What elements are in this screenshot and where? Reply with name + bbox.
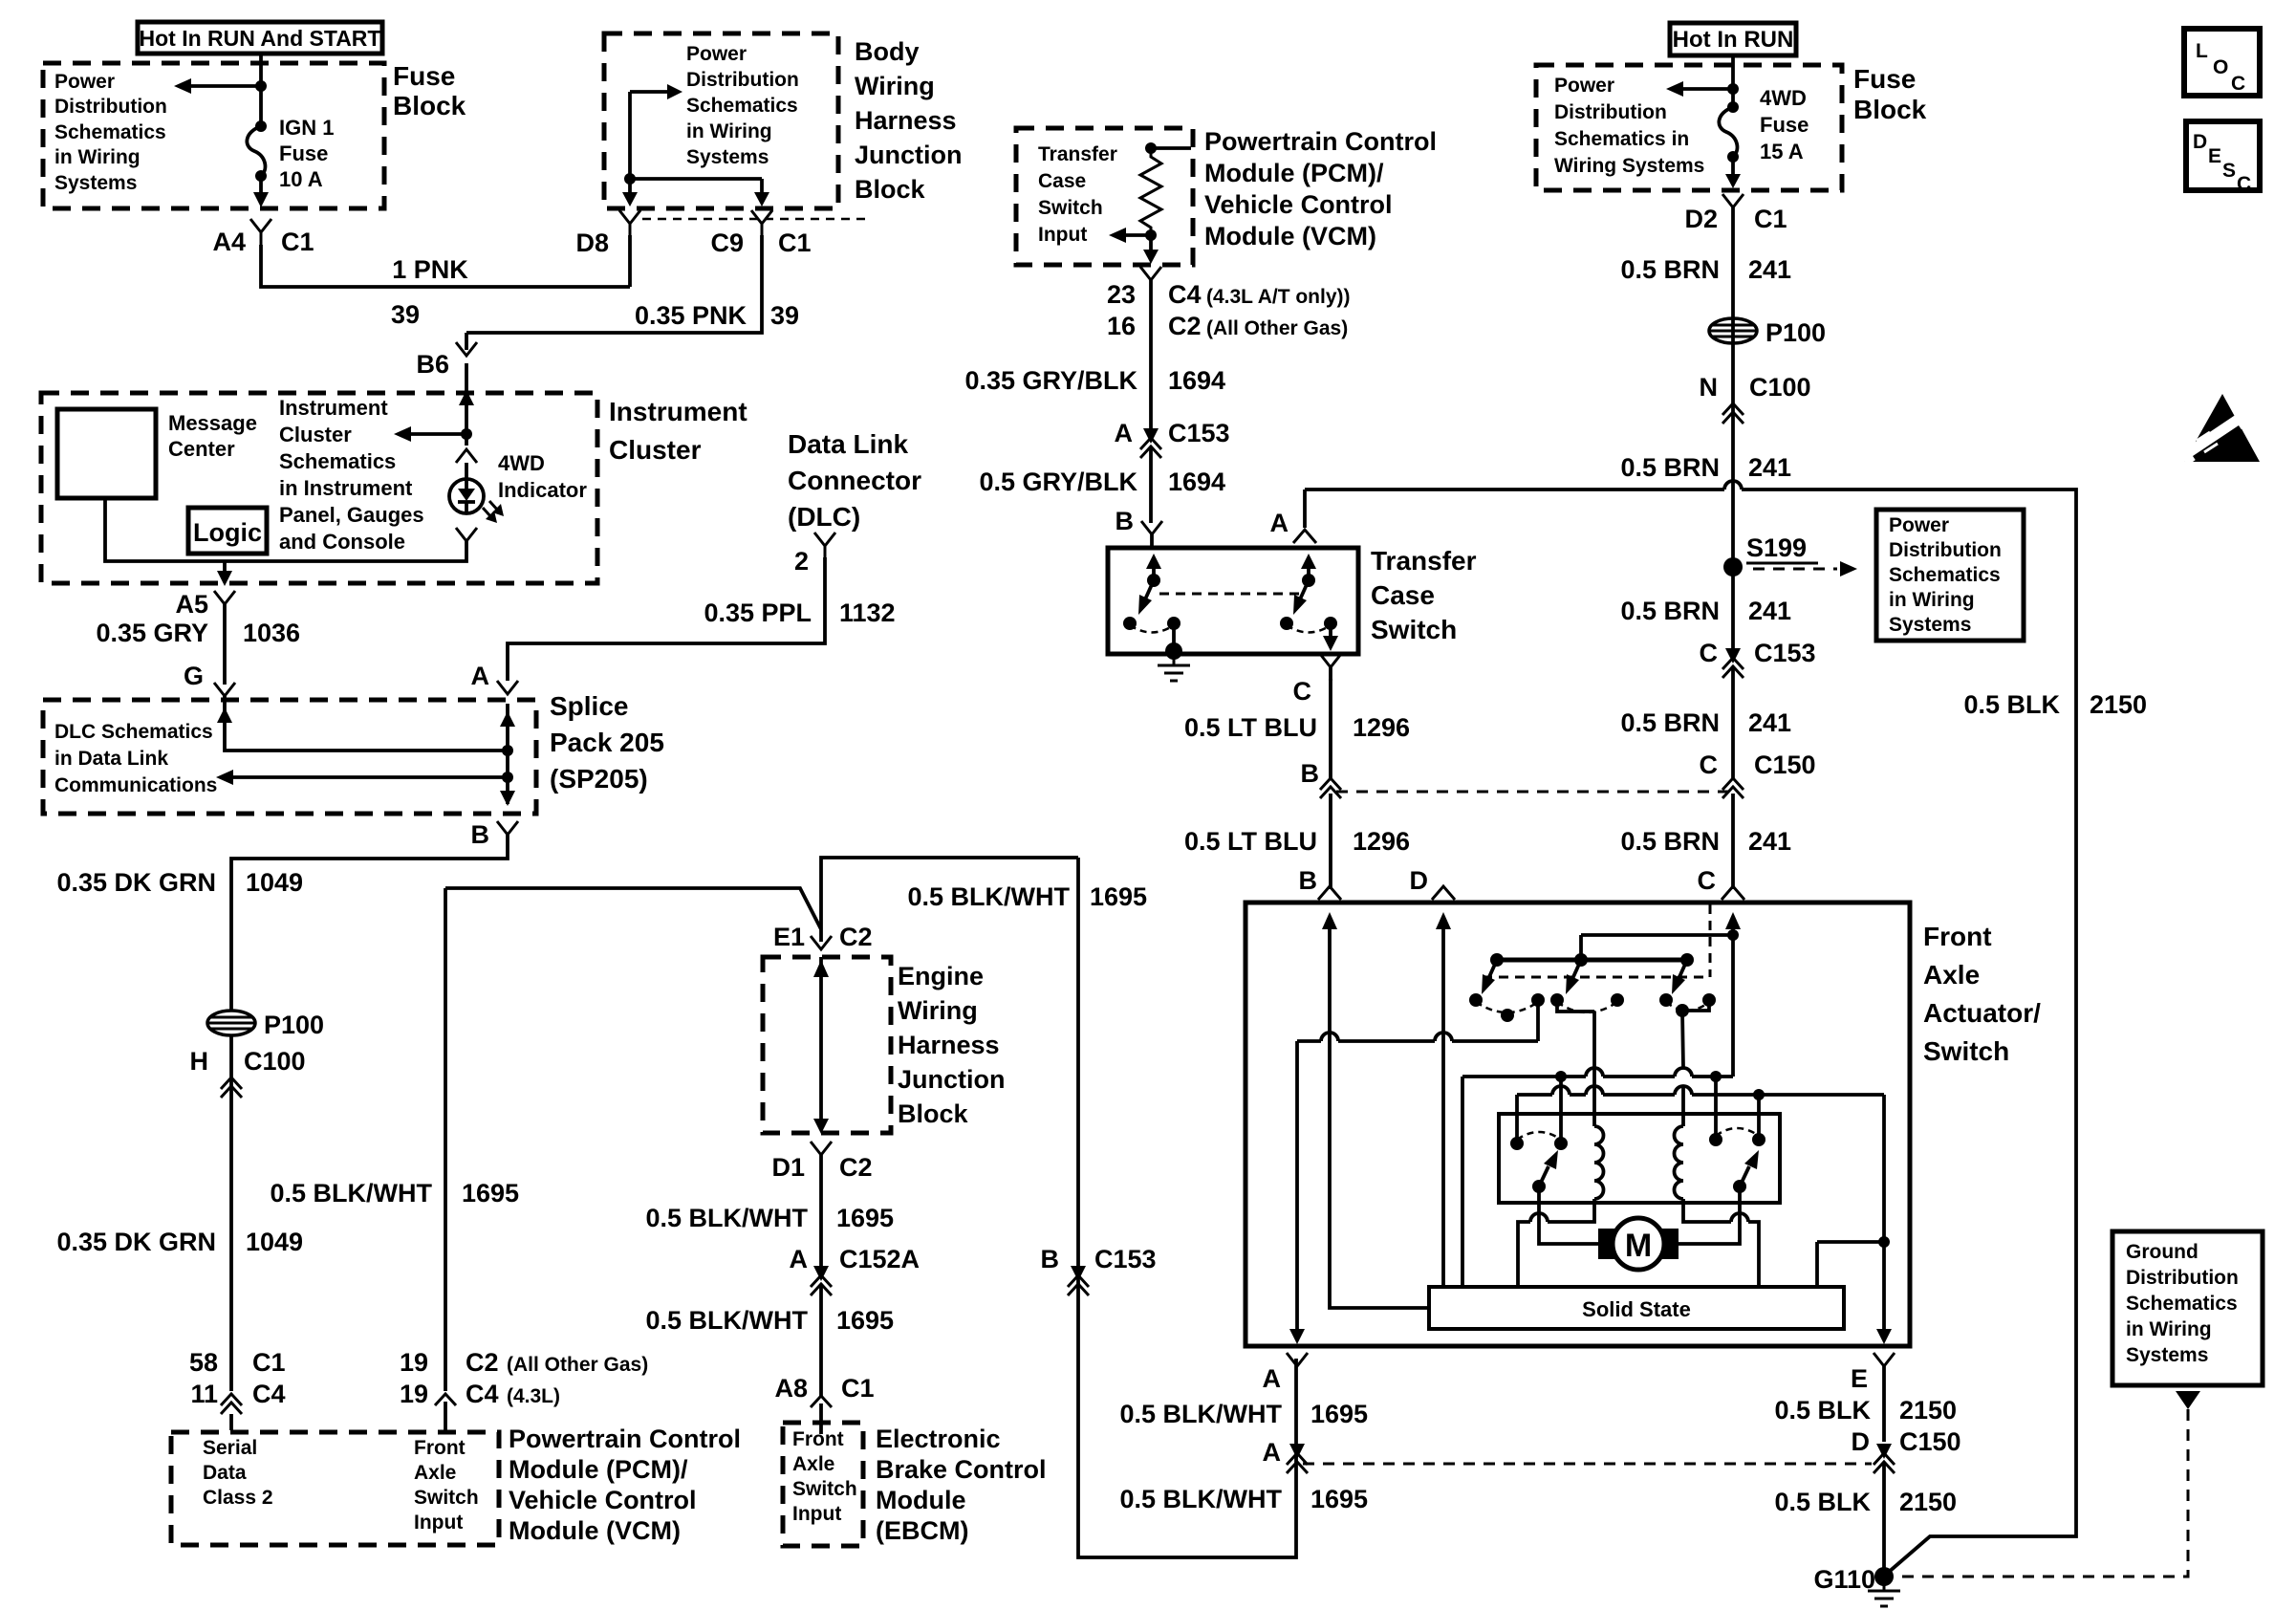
svg-text:0.35 GRY/BLK: 0.35 GRY/BLK — [964, 366, 1137, 395]
wire 0.35 PNK 39 — [466, 235, 799, 333]
wire 0.5 BLK/WHT 1695 (to C152A) — [645, 1166, 894, 1268]
svg-text:1695: 1695 — [836, 1204, 894, 1232]
svg-text:Axle: Axle — [414, 1462, 456, 1484]
connector 58 C1 / 11 C4 into PCM — [189, 1348, 286, 1430]
wire 0.5 BLK/WHT 1695 (actuator A lower) — [1119, 1485, 1368, 1513]
svg-text:D2: D2 — [1684, 205, 1718, 233]
PCM/VCM dashed box (bottom left) — [171, 1432, 499, 1545]
svg-text:Block: Block — [393, 91, 466, 120]
svg-text:0.5 BLK/WHT: 0.5 BLK/WHT — [645, 1204, 808, 1232]
svg-text:C150: C150 — [1754, 751, 1816, 779]
svg-text:C: C — [2231, 73, 2245, 95]
in-line connector A C153 — [1115, 419, 1230, 458]
svg-text:1695: 1695 — [1090, 882, 1147, 911]
front axle actuator/switch box — [1245, 903, 1910, 1346]
right pivot drop to motor — [1679, 1186, 1740, 1244]
Transfer Case Switch Input note — [1038, 143, 1117, 246]
wire 0.5 LT BLU 1296 (upper) — [1184, 679, 1410, 780]
svg-text:Transfer: Transfer — [1371, 546, 1477, 576]
wire D8 down to 1 PNK — [628, 235, 632, 287]
svg-text:Wiring: Wiring — [855, 72, 935, 100]
svg-text:Module (PCM)/: Module (PCM)/ — [509, 1455, 688, 1484]
in-line connector N C100 — [1700, 373, 1811, 424]
svg-text:Module: Module — [876, 1486, 966, 1514]
svg-text:C2: C2 — [839, 923, 873, 951]
svg-text:O: O — [2213, 56, 2228, 78]
transfer case switch pole B — [1123, 554, 1182, 660]
svg-text:10 A: 10 A — [279, 167, 323, 191]
svg-text:Class 2: Class 2 — [203, 1487, 273, 1509]
svg-text:(DLC): (DLC) — [788, 502, 860, 532]
Data Link Connector label — [788, 429, 921, 532]
svg-text:Instrument: Instrument — [609, 397, 747, 426]
connector D1 C2 — [771, 1142, 872, 1182]
svg-text:1049: 1049 — [246, 868, 303, 897]
upper switch arm 2 — [1566, 960, 1581, 994]
connector G — [184, 662, 235, 696]
svg-text:Axle: Axle — [1923, 960, 1980, 990]
wire 0.5 BLK 2150 (E lower) — [1774, 1462, 1957, 1577]
svg-text:Serial: Serial — [203, 1437, 257, 1459]
svg-text:S: S — [2222, 160, 2236, 182]
svg-text:Harness: Harness — [855, 106, 957, 135]
wire 0.35 PPL 1132 — [704, 598, 895, 627]
svg-text:Transfer: Transfer — [1038, 143, 1117, 165]
Fuse Block label (left) — [393, 61, 466, 120]
Instrument Cluster title — [609, 397, 747, 465]
svg-text:Input: Input — [1038, 224, 1087, 246]
power distribution schematics box (solid) — [1876, 510, 2024, 641]
wire 0.5 BRN 241 (S199 to C153) — [1620, 567, 1791, 650]
svg-text:Junction: Junction — [855, 141, 963, 169]
Splice Pack label — [550, 691, 664, 794]
riser line A to solid state — [1461, 1077, 1464, 1287]
Body Wiring Harness Junction Block label — [855, 37, 963, 204]
svg-text:0.5 BLK/WHT: 0.5 BLK/WHT — [907, 882, 1070, 911]
svg-text:Panel, Gauges: Panel, Gauges — [279, 503, 424, 527]
svg-text:0.5 BRN: 0.5 BRN — [1620, 597, 1720, 625]
svg-text:in Wiring: in Wiring — [54, 146, 141, 168]
svg-text:1 PNK: 1 PNK — [392, 255, 468, 284]
connector E (actuator bottom) — [1851, 1353, 1895, 1393]
svg-text:241: 241 — [1748, 597, 1791, 625]
svg-text:L: L — [2196, 40, 2208, 62]
pull-up resistor in PCM — [1140, 142, 1191, 232]
svg-text:B6: B6 — [416, 350, 449, 379]
svg-text:Schematics: Schematics — [54, 121, 166, 143]
body wiring harness junction block dashed box — [604, 33, 838, 208]
wire 0.5 BLK 2150 (E upper) — [1774, 1366, 1957, 1442]
svg-text:0.5 BLK: 0.5 BLK — [1774, 1396, 1871, 1425]
svg-text:Block: Block — [898, 1099, 969, 1128]
svg-text:Module (VCM): Module (VCM) — [509, 1516, 681, 1545]
svg-text:B: B — [1041, 1245, 1060, 1273]
wire from PCM-19 wire top to E1 junction — [445, 888, 821, 929]
pointer triangle (ground distribution) — [2176, 1391, 2200, 1409]
svg-text:C100: C100 — [1749, 373, 1811, 402]
upper switch pivot bar — [1490, 953, 1694, 967]
svg-text:C4: C4 — [252, 1380, 286, 1408]
svg-text:Distribution: Distribution — [686, 69, 799, 91]
svg-text:Fuse: Fuse — [279, 141, 328, 165]
svg-text:Actuator/: Actuator/ — [1923, 998, 2041, 1028]
upper switch contacts row — [1469, 993, 1716, 1022]
line A (C feed) — [1462, 1068, 1733, 1082]
svg-text:DLC Schematics: DLC Schematics — [54, 721, 213, 743]
svg-text:(All Other Gas): (All Other Gas) — [507, 1354, 648, 1376]
svg-text:0.5 BLK: 0.5 BLK — [1963, 690, 2060, 719]
dashed arrow S199 to power distribution — [1753, 561, 1857, 577]
svg-text:Distribution: Distribution — [1889, 539, 2002, 561]
svg-text:Module (PCM)/: Module (PCM)/ — [1204, 159, 1384, 187]
svg-text:0.5 BLK/WHT: 0.5 BLK/WHT — [270, 1179, 432, 1207]
4WD Fuse 15 A label — [1760, 86, 1809, 163]
wire 0.5 BLK/WHT 1695 (EBCM riser to actuator) — [907, 858, 1296, 1557]
svg-text:Systems: Systems — [2126, 1344, 2208, 1366]
connector 23 C4 / 16 C2 — [1107, 267, 1351, 340]
DLC pin 2 connector — [794, 533, 835, 576]
connector B (transfer case switch) — [1116, 507, 1163, 548]
connector A (actuator bottom) — [1263, 1353, 1309, 1393]
svg-text:B: B — [471, 820, 490, 849]
connector B (splice bottom) — [471, 820, 519, 849]
svg-text:Case: Case — [1371, 580, 1435, 610]
svg-text:0.35 GRY: 0.35 GRY — [96, 619, 208, 647]
arrow to Power Distribution Schematics (right) — [1666, 81, 1733, 97]
motor M — [1598, 1218, 1679, 1270]
svg-text:C4: C4 — [1168, 280, 1202, 309]
svg-text:A4: A4 — [212, 228, 246, 256]
connector E1 C2 — [773, 923, 873, 951]
svg-text:Block: Block — [1853, 95, 1927, 124]
svg-text:0.5 BLK/WHT: 0.5 BLK/WHT — [1119, 1400, 1282, 1428]
wire 0.35 GRY/BLK 1694 — [964, 292, 1225, 430]
dashed connector line C150 (upper) — [1336, 791, 1733, 794]
svg-text:39: 39 — [770, 301, 799, 330]
svg-text:Front: Front — [1923, 922, 1992, 951]
svg-text:0.5 LT BLU: 0.5 LT BLU — [1184, 713, 1317, 742]
svg-text:16: 16 — [1107, 312, 1136, 340]
wire pivot bar feed — [1581, 935, 1733, 960]
svg-text:Schematics: Schematics — [686, 95, 798, 117]
linkage dashed (transfer case switch) — [1159, 593, 1303, 596]
svg-text:Indicator: Indicator — [498, 478, 587, 502]
pass through grommet P100 (right) — [1709, 318, 1826, 347]
connector C (actuator) — [1698, 866, 1745, 900]
svg-text:2150: 2150 — [1899, 1396, 1957, 1425]
svg-text:C: C — [1700, 639, 1719, 667]
svg-text:Vehicle Control: Vehicle Control — [509, 1486, 697, 1514]
connector D8 / C9 / C1 — [575, 210, 865, 257]
svg-text:Logic: Logic — [193, 518, 262, 547]
svg-text:B: B — [1116, 507, 1135, 535]
Front Axle Actuator/Switch label — [1923, 922, 2041, 1066]
svg-text:Pack 205: Pack 205 — [550, 728, 664, 757]
LOC legend box — [2184, 29, 2260, 96]
svg-text:(4.3L): (4.3L) — [507, 1385, 560, 1407]
svg-text:241: 241 — [1748, 708, 1791, 737]
svg-text:0.5 BRN: 0.5 BRN — [1620, 708, 1720, 737]
connector 19 C2 / 19 C4 into PCM — [400, 1348, 648, 1430]
dashed wire ground distribution to G110 — [1895, 1409, 2188, 1577]
splice wire G branch with up arrow — [217, 696, 513, 756]
svg-text:0.35 PPL: 0.35 PPL — [704, 598, 812, 627]
svg-text:M: M — [1625, 1228, 1652, 1264]
connector A5 — [175, 590, 235, 619]
4WD Indicator label — [498, 451, 587, 502]
svg-text:A: A — [1270, 509, 1289, 537]
svg-text:Wiring: Wiring — [898, 996, 978, 1025]
svg-text:C1: C1 — [841, 1374, 875, 1403]
svg-text:C100: C100 — [244, 1047, 306, 1076]
svg-text:Ground: Ground — [2126, 1241, 2199, 1263]
Serial Data Class 2 note — [203, 1437, 273, 1509]
PCM/VCM title (bottom) — [509, 1425, 741, 1545]
DLC schematics dashed box — [43, 700, 536, 814]
connector B (actuator) — [1299, 866, 1342, 900]
coil 2 — [1675, 1126, 1684, 1199]
svg-text:Powertrain Control: Powertrain Control — [509, 1425, 741, 1453]
DLC Schematics note — [54, 721, 217, 796]
svg-text:2150: 2150 — [1899, 1488, 1957, 1516]
svg-text:1695: 1695 — [462, 1179, 519, 1207]
svg-text:Data: Data — [203, 1462, 247, 1484]
svg-text:(EBCM): (EBCM) — [876, 1516, 968, 1545]
svg-text:G110: G110 — [1813, 1565, 1875, 1594]
Hot In RUN box — [1670, 23, 1796, 55]
svg-text:19: 19 — [400, 1380, 428, 1408]
connector D (actuator) — [1410, 866, 1456, 900]
DESC legend box — [2186, 121, 2260, 195]
Fuse Block label (right) — [1853, 64, 1927, 124]
svg-text:0.5 BLK/WHT: 0.5 BLK/WHT — [645, 1306, 808, 1335]
upper switch arm 1 — [1482, 960, 1497, 994]
arrow left to DLC schematics — [216, 770, 513, 785]
svg-text:C4: C4 — [466, 1380, 499, 1408]
message center box — [57, 409, 257, 498]
svg-text:Axle: Axle — [792, 1453, 834, 1475]
svg-text:and Console: and Console — [279, 530, 405, 554]
svg-text:in Wiring: in Wiring — [1889, 589, 1975, 611]
svg-text:C1: C1 — [778, 228, 812, 257]
svg-text:0.5 LT BLU: 0.5 LT BLU — [1184, 827, 1317, 856]
drop to left limit switch contact — [1559, 1077, 1563, 1143]
svg-text:Module (VCM): Module (VCM) — [1204, 222, 1376, 250]
svg-text:Schematics: Schematics — [2126, 1293, 2238, 1315]
in-line connector D C150 (right) — [1852, 1427, 1961, 1473]
wire from Hot In RUN into fuse — [1727, 55, 1739, 107]
svg-text:39: 39 — [391, 300, 420, 329]
svg-text:1296: 1296 — [1353, 713, 1410, 742]
wire from A-pin corner to 2150 run — [1303, 490, 1307, 528]
splice pack vertical with arrows — [500, 704, 515, 806]
coil 2 drop to solid state — [1683, 1199, 1759, 1287]
svg-text:1049: 1049 — [246, 1228, 303, 1256]
wire from A up to DLC pin 2 — [508, 557, 825, 681]
svg-text:D1: D1 — [771, 1153, 805, 1182]
svg-text:Solid State: Solid State — [1582, 1297, 1691, 1321]
svg-text:C153: C153 — [1754, 639, 1816, 667]
wire to transfer case A and 0.5 BLK 2150 run — [1305, 481, 2147, 1573]
svg-text:23: 23 — [1107, 280, 1136, 309]
svg-text:Case: Case — [1038, 170, 1086, 192]
pin E vertical — [1876, 1095, 1892, 1344]
svg-text:Message: Message — [168, 411, 257, 435]
pin D riser (inside) — [1436, 912, 1451, 1287]
IGN 1 Fuse 10 A label — [279, 116, 334, 191]
connector A4 C1 — [212, 219, 314, 256]
svg-text:1296: 1296 — [1353, 827, 1410, 856]
in-line connector A C150 (left) — [1263, 1438, 1309, 1473]
left pivot drop to motor — [1539, 1186, 1600, 1244]
svg-text:C2: C2 — [1168, 312, 1202, 340]
wire 0.35 DK GRN 1049 (upper) — [56, 835, 508, 1391]
in-line connector B C153 (EBCM riser) — [1041, 1245, 1157, 1295]
svg-text:E1: E1 — [773, 923, 805, 951]
left limit switch — [1510, 1132, 1568, 1193]
svg-text:C: C — [1700, 751, 1719, 779]
fuse block dashed box (left) — [43, 63, 384, 208]
connector A (splice top) — [471, 662, 519, 694]
wire out of PCM box down — [1143, 232, 1159, 264]
svg-text:E: E — [2208, 145, 2221, 167]
svg-text:C153: C153 — [1168, 419, 1230, 447]
svg-text:Systems: Systems — [1889, 614, 1971, 636]
transfer case switch box — [1108, 548, 1358, 654]
svg-text:0.35 DK GRN: 0.35 DK GRN — [56, 1228, 216, 1256]
ground G110 — [1813, 1565, 1900, 1606]
svg-text:Power: Power — [54, 71, 115, 93]
svg-text:Switch: Switch — [792, 1478, 857, 1500]
line B drop to right limit switch contact — [1757, 1095, 1761, 1140]
wire 0.35 DK GRN 1049 (lower) — [56, 1228, 303, 1256]
wire contact elbow to coil 1 riser — [1557, 1000, 1594, 1012]
wire 0.5 GRY/BLK 1694 — [979, 446, 1225, 523]
svg-text:Brake Control: Brake Control — [876, 1455, 1047, 1484]
svg-text:0.35 PNK: 0.35 PNK — [635, 301, 747, 330]
in-line connector H C100 — [190, 1047, 306, 1098]
svg-text:A: A — [790, 1245, 809, 1273]
svg-text:Communications: Communications — [54, 774, 217, 796]
svg-text:P100: P100 — [1765, 318, 1826, 347]
svg-text:C: C — [2237, 173, 2251, 195]
ESD static sensitive symbol — [2178, 394, 2260, 466]
svg-text:Input: Input — [792, 1503, 841, 1525]
svg-text:0.5 BLK: 0.5 BLK — [1774, 1488, 1871, 1516]
wire contact elbow to coil 2 riser — [1682, 1000, 1709, 1011]
svg-text:Fuse: Fuse — [1760, 113, 1809, 137]
svg-text:P100: P100 — [264, 1011, 324, 1039]
svg-text:Junction: Junction — [898, 1065, 1006, 1094]
svg-text:11: 11 — [190, 1380, 218, 1408]
coil 1 — [1594, 1126, 1604, 1199]
svg-text:Fuse: Fuse — [1853, 64, 1916, 94]
limit switch inner box — [1499, 1114, 1780, 1203]
svg-text:D8: D8 — [575, 228, 609, 257]
svg-text:Distribution: Distribution — [1554, 101, 1667, 123]
svg-text:B: B — [1301, 759, 1320, 788]
svg-text:4WD: 4WD — [498, 451, 545, 475]
wire 1 PNK 39 — [261, 245, 630, 329]
svg-text:C2: C2 — [466, 1348, 499, 1377]
wire 0.5 BRN 241 (to S199) with hop over 2150 run — [1620, 219, 1791, 558]
svg-text:D: D — [1852, 1427, 1871, 1456]
svg-text:A: A — [1263, 1364, 1282, 1393]
ground distribution schematics box — [2112, 1231, 2263, 1385]
svg-text:Cluster: Cluster — [279, 423, 352, 446]
svg-text:(All Other Gas): (All Other Gas) — [1206, 317, 1348, 339]
svg-text:A8: A8 — [774, 1374, 808, 1403]
wire 0.5 BLK/WHT 1695 (front axle switch input to PCM) — [270, 888, 519, 1391]
svg-text:S199: S199 — [1746, 533, 1807, 562]
svg-text:241: 241 — [1748, 453, 1791, 482]
svg-text:1695: 1695 — [1310, 1485, 1368, 1513]
svg-text:in Wiring: in Wiring — [686, 120, 772, 142]
svg-text:Input: Input — [414, 1512, 463, 1534]
svg-text:C2: C2 — [839, 1153, 873, 1182]
coil 1 drop to solid state — [1518, 1199, 1594, 1287]
svg-text:1695: 1695 — [836, 1306, 894, 1335]
fuse 4WD 15A — [1719, 101, 1741, 188]
svg-text:Body: Body — [855, 37, 920, 66]
logic box — [188, 508, 267, 554]
Front Axle Switch Input note (EBCM) — [792, 1428, 857, 1525]
svg-text:Fuse: Fuse — [393, 61, 455, 91]
svg-text:Switch: Switch — [1371, 615, 1457, 644]
svg-text:Splice: Splice — [550, 691, 628, 721]
Engine Wiring Harness Junction Block label — [898, 962, 1006, 1128]
svg-text:Block: Block — [855, 175, 926, 204]
svg-text:Power: Power — [686, 43, 747, 65]
svg-text:D: D — [1410, 866, 1429, 895]
Power Distribution Schematics note (body junction block) — [686, 43, 799, 168]
svg-text:Hot In RUN And START: Hot In RUN And START — [140, 26, 381, 51]
right limit switch — [1709, 1128, 1765, 1193]
svg-text:Connector: Connector — [788, 466, 921, 495]
Front Axle Switch Input note (PCM) — [414, 1437, 479, 1534]
svg-text:in Wiring: in Wiring — [2126, 1318, 2212, 1340]
pass through grommet P100 (left) — [207, 1011, 324, 1039]
svg-text:G: G — [184, 662, 204, 690]
svg-text:0.5 GRY/BLK: 0.5 GRY/BLK — [979, 468, 1137, 496]
svg-text:D: D — [2193, 131, 2207, 153]
svg-text:C: C — [1698, 866, 1717, 895]
EBCM dashed box — [783, 1423, 863, 1546]
pin B riser (inside) — [1322, 912, 1429, 1308]
Power Distribution Schematics note (right fuse block) — [1554, 75, 1704, 177]
svg-text:C1: C1 — [281, 228, 314, 256]
svg-text:241: 241 — [1748, 255, 1791, 284]
svg-text:C152A: C152A — [839, 1245, 920, 1273]
connector C (transfer case switch) — [1293, 654, 1342, 706]
svg-text:(4.3L A/T only)): (4.3L A/T only)) — [1206, 286, 1351, 308]
linkage dashed (actuator) — [1483, 904, 1710, 977]
dashed connector line C150 (lower) — [1303, 1463, 1872, 1466]
svg-text:A5: A5 — [175, 590, 208, 619]
svg-text:2: 2 — [794, 547, 809, 576]
svg-text:Electronic: Electronic — [876, 1425, 1001, 1453]
ground (transfer case switch) — [1158, 651, 1190, 681]
wire from Hot In RUN And START into fuse block — [255, 54, 267, 126]
coil 1 riser with hops — [1592, 1012, 1596, 1126]
wire 0.5 BLK/WHT 1695 (actuator A upper) — [1119, 1400, 1368, 1428]
svg-text:in Instrument: in Instrument — [279, 476, 413, 500]
wires inside body junction block — [622, 84, 769, 207]
4WD indicator LED — [449, 479, 504, 523]
svg-text:Cluster: Cluster — [609, 435, 702, 465]
svg-text:Distribution: Distribution — [2126, 1267, 2239, 1289]
connector A (transfer case switch) — [1270, 509, 1317, 543]
